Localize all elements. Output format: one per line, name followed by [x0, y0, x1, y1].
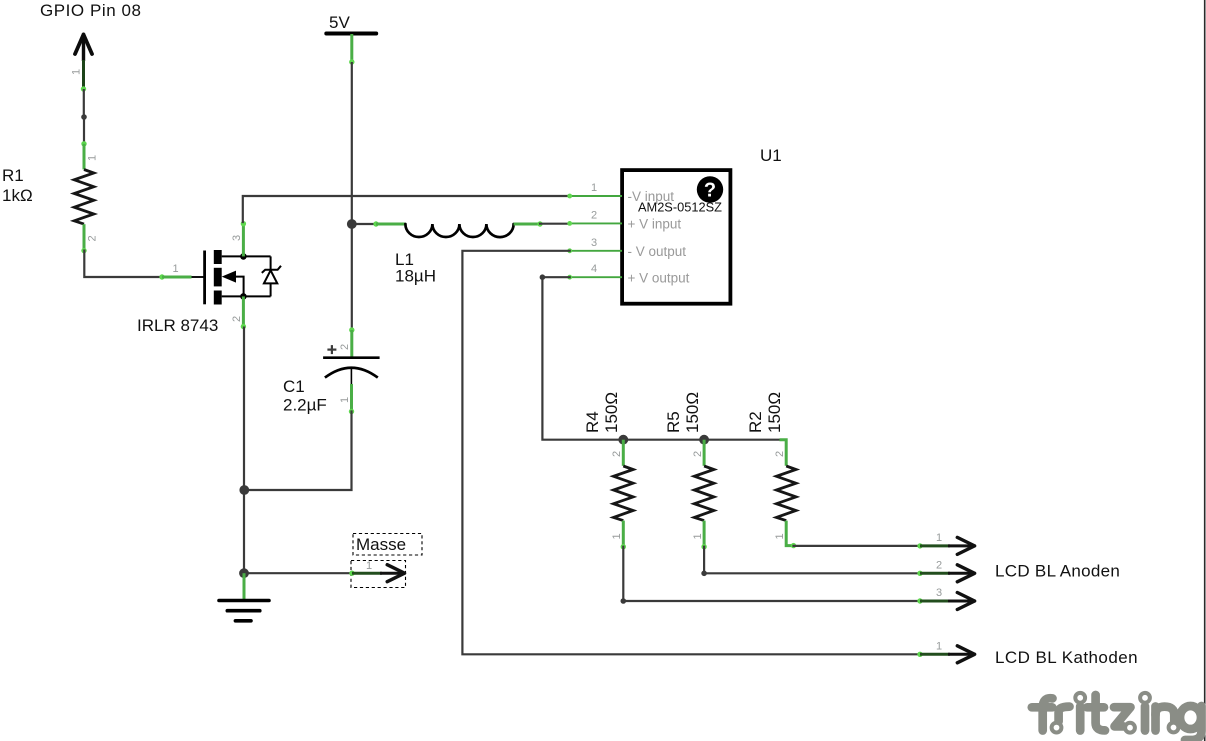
- svg-text:R1: R1: [2, 166, 24, 185]
- wire junction to R1: [83, 117, 85, 144]
- resistor R4: [611, 440, 633, 550]
- source pin 2: [242, 296, 245, 326]
- wire R1 to gate: [84, 251, 161, 277]
- source junction dot: [240, 293, 247, 300]
- junction rail R5: [699, 435, 709, 445]
- svg-text:3: 3: [591, 237, 597, 249]
- svg-text:C1: C1: [283, 377, 305, 396]
- svg-text:3: 3: [231, 235, 243, 241]
- IC U1 AM2S-0512SZ box: [622, 170, 730, 304]
- node Masse arrow box: [351, 561, 406, 588]
- window right border: [1204, 0, 1206, 741]
- drain wire: [222, 255, 271, 257]
- svg-text:+ V input: + V input: [628, 216, 682, 231]
- node LCD BL Anoden arrow 2: [917, 559, 974, 581]
- svg-text:1: 1: [173, 263, 179, 275]
- node LCD BL Anoden arrow 3: [917, 587, 974, 609]
- svg-text:2: 2: [774, 451, 786, 457]
- U1 pin 3: [567, 237, 622, 253]
- svg-text:Masse: Masse: [356, 535, 406, 554]
- svg-text:?: ?: [704, 180, 716, 202]
- wire U1 pin3 down to kathode rail: [462, 251, 920, 655]
- svg-text:2: 2: [591, 209, 597, 221]
- svg-text:1: 1: [366, 560, 372, 572]
- diode branch: [270, 256, 272, 296]
- svg-text:+ V output: + V output: [628, 271, 690, 286]
- capacitor C1: [323, 327, 380, 414]
- svg-text:2: 2: [339, 344, 351, 350]
- svg-text:R5: R5: [664, 411, 683, 433]
- svg-text:18µH: 18µH: [395, 267, 436, 286]
- svg-text:LCD BL Kathoden: LCD BL Kathoden: [995, 648, 1138, 667]
- resistor R5: [692, 440, 714, 550]
- svg-text:R4: R4: [583, 411, 602, 433]
- svg-text:150Ω: 150Ω: [602, 392, 621, 433]
- fritzing logo rings: [1052, 693, 1179, 733]
- svg-text:2.2µF: 2.2µF: [283, 396, 327, 415]
- unknown-part badge: [697, 176, 723, 202]
- U1 pin 4: [567, 263, 622, 279]
- svg-text:2: 2: [611, 451, 623, 457]
- transistor Q1 IRLR 8743: [159, 221, 281, 329]
- junction: [81, 114, 87, 120]
- wire junction to C1: [351, 224, 353, 330]
- svg-text:R2: R2: [746, 411, 765, 433]
- svg-text:5V: 5V: [329, 13, 350, 32]
- node GPIO arrow (net pointer up): [71, 35, 93, 92]
- drain pin 3: [242, 224, 245, 257]
- svg-text:2: 2: [87, 235, 99, 241]
- svg-text:1kΩ: 1kΩ: [2, 186, 33, 205]
- wire R5 down and to anode arrow 2: [704, 547, 920, 574]
- wire L1 to U1 pin2: [540, 223, 570, 225]
- svg-text:1: 1: [936, 640, 942, 652]
- svg-text:1: 1: [936, 532, 942, 544]
- power 5V symbol: [326, 13, 376, 65]
- junction rail R4: [618, 435, 628, 445]
- channel bars: [214, 250, 222, 264]
- junction pin4 corner: [540, 274, 546, 280]
- junction R5 corner: [701, 571, 707, 577]
- svg-text:1: 1: [774, 533, 786, 539]
- svg-text:3: 3: [936, 587, 942, 599]
- svg-text:U1: U1: [760, 146, 782, 165]
- svg-text:4: 4: [591, 263, 597, 275]
- wire junction to L1: [352, 223, 376, 225]
- wire 5V down: [351, 62, 353, 224]
- svg-text:1: 1: [692, 533, 704, 539]
- wire C1 to ground rail: [245, 412, 352, 491]
- svg-text:- V output: - V output: [628, 244, 687, 259]
- wire GPIO to junction: [83, 89, 85, 117]
- svg-text:GPIO Pin 08: GPIO Pin 08: [40, 1, 141, 20]
- wire R2 to anode arrow 1: [794, 545, 921, 547]
- wire ground node to Masse arrow: [244, 572, 352, 574]
- wire source column down: [243, 327, 245, 574]
- svg-text:150Ω: 150Ω: [765, 392, 784, 433]
- junction node 5V/L1/C1: [347, 219, 357, 229]
- zener diode: [262, 266, 281, 273]
- svg-text:1: 1: [611, 533, 623, 539]
- fritzing logo: [1032, 695, 1202, 740]
- svg-text:2: 2: [692, 451, 704, 457]
- wire U1 pin1 to drain column: [243, 196, 570, 222]
- gate pin 1: [159, 274, 164, 279]
- wire U1 pin4 to resistor rail: [542, 277, 779, 440]
- junction ground node: [239, 568, 249, 578]
- ground symbol: [219, 573, 269, 621]
- junction C1/source: [239, 485, 249, 495]
- U1 pin 1: [567, 182, 622, 198]
- gate bar: [203, 251, 206, 305]
- svg-text:1: 1: [87, 155, 99, 161]
- svg-text:1: 1: [339, 397, 351, 403]
- svg-text:LCD BL Anoden: LCD BL Anoden: [995, 562, 1120, 581]
- source wire: [222, 295, 271, 297]
- junction R4 corner: [621, 598, 627, 604]
- node LCD BL Anoden arrow 1: [917, 532, 974, 554]
- resistor R1: [74, 141, 98, 253]
- node Masse arrow: [349, 560, 404, 582]
- svg-text:2: 2: [936, 559, 942, 571]
- inductor L1: [373, 221, 542, 237]
- U1 pin 2: [567, 209, 622, 225]
- node LCD BL Kathoden arrow: [917, 640, 974, 662]
- svg-text:1: 1: [591, 182, 597, 194]
- body arrow: [222, 271, 236, 283]
- svg-text:2: 2: [231, 316, 243, 322]
- svg-text:IRLR 8743: IRLR 8743: [137, 316, 218, 335]
- resistor R2: [774, 440, 796, 549]
- node Masse label box: [353, 534, 422, 556]
- svg-text:150Ω: 150Ω: [683, 392, 702, 433]
- svg-text:1: 1: [71, 69, 83, 75]
- drain junction dot: [240, 253, 247, 260]
- wire R4 down and to anode arrow 3: [623, 547, 920, 601]
